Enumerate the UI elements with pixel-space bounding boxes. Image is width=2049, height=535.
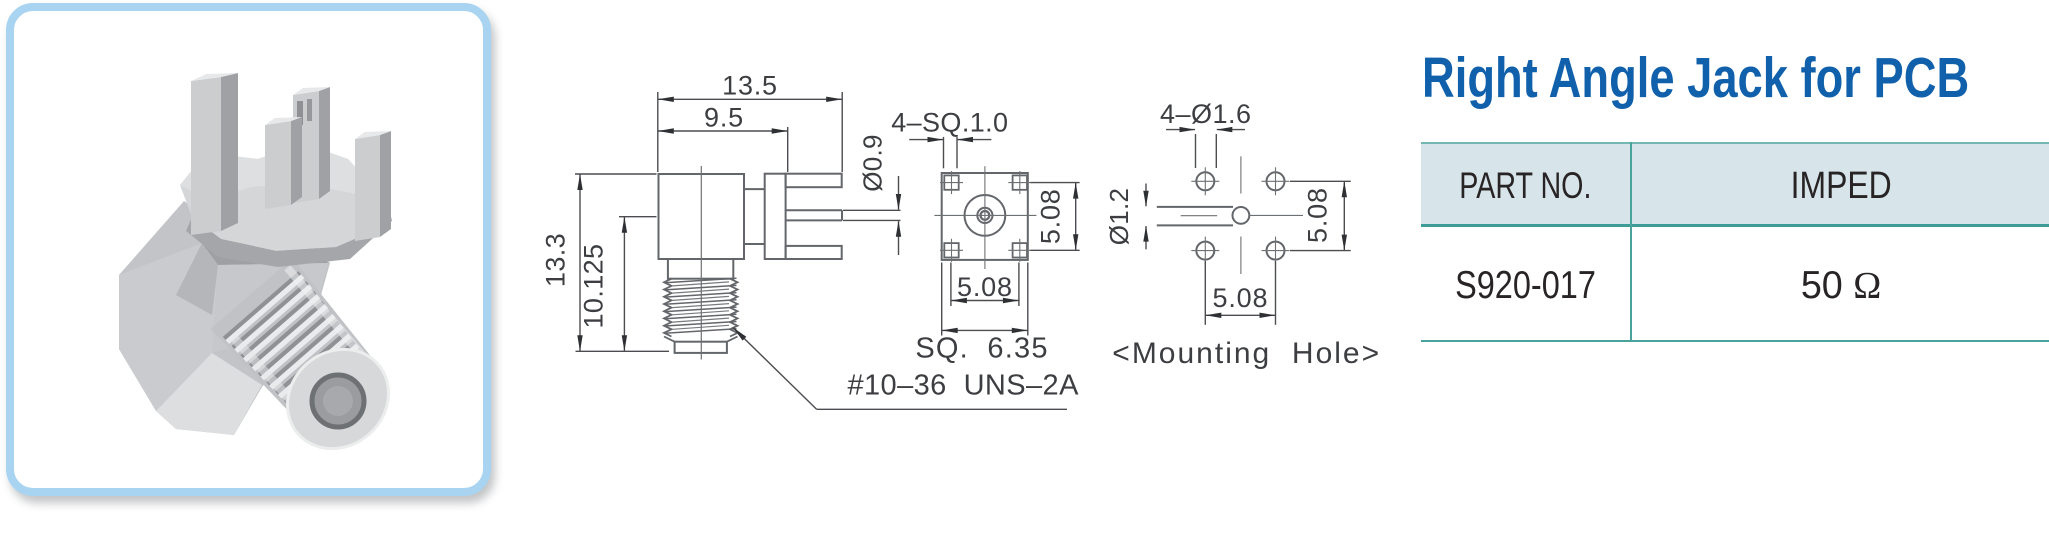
svg-text:Ø0.9: Ø0.9: [858, 134, 888, 192]
svg-text:SQ. 6.35: SQ. 6.35: [915, 332, 1048, 364]
svg-text:13.5: 13.5: [722, 71, 778, 101]
svg-text:4–Ø1.6: 4–Ø1.6: [1160, 99, 1252, 129]
svg-text:5.08: 5.08: [1036, 188, 1066, 244]
svg-text:5.08: 5.08: [1303, 187, 1333, 243]
svg-text:5.08: 5.08: [957, 272, 1013, 302]
svg-text:5.08: 5.08: [1213, 283, 1269, 313]
svg-text:10.125: 10.125: [579, 244, 609, 329]
svg-text:#10–36 UNS–2A: #10–36 UNS–2A: [848, 370, 1080, 402]
svg-text:4–SQ.1.0: 4–SQ.1.0: [891, 108, 1008, 138]
svg-text:<Mounting Hole>: <Mounting Hole>: [1112, 337, 1381, 370]
svg-text:13.3: 13.3: [541, 233, 571, 287]
svg-text:9.5: 9.5: [704, 102, 744, 132]
svg-text:Ø1.2: Ø1.2: [1104, 188, 1134, 246]
